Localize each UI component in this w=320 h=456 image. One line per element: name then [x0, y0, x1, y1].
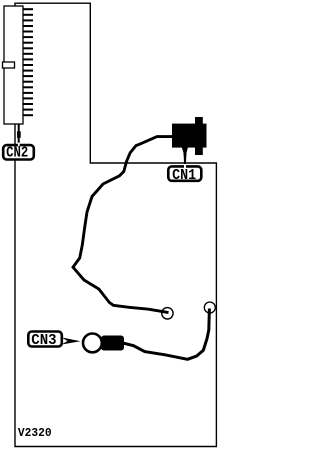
svg-text:CN3: CN3	[31, 332, 56, 349]
svg-text:V2320: V2320	[18, 426, 52, 440]
svg-text:CN1: CN1	[172, 167, 196, 184]
svg-text:CN2: CN2	[6, 145, 28, 162]
